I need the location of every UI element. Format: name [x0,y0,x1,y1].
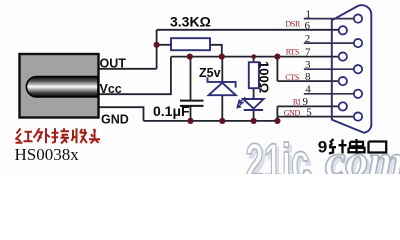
label red chinese 红外接收头 (drawn strokes) [16,128,101,143]
pin 1 stub [304,18,354,20]
node CTS branch junction [274,54,280,60]
接 [52,128,70,143]
svg-text:5: 5 [306,106,312,118]
wire capacitor bottom to GND rail [190,106,192,121]
pin 2 circle [354,39,362,47]
capacitor 0.1uF plates [180,101,204,106]
pin 1 circle [354,14,362,22]
resistor R1 3.3K body [171,38,210,50]
svg-text:Z5v: Z5v [199,66,221,80]
IR receiver box HS0038 [20,54,99,118]
wire 100ohm top [253,57,255,63]
pin 4 circle [354,90,362,98]
svg-text:RTS: RTS [286,47,299,56]
svg-text:.: . [303,136,315,174]
pin 7 circle [339,52,347,60]
svg-text:4: 4 [305,84,311,96]
pin 9 circle [339,102,347,110]
wire 100ohm bottom to LED [253,88,255,99]
node zener top junction [219,54,225,60]
口 [369,142,387,153]
pin 3 stub [304,68,354,70]
针 [329,139,347,154]
wire capacitor top [190,57,192,101]
svg-text:6: 6 [305,20,311,32]
svg-text:HS0038x: HS0038x [15,145,80,164]
svg-text:9: 9 [318,137,327,156]
DB9 connector body [332,5,372,133]
外 [34,128,50,143]
svg-text:3: 3 [305,59,311,71]
pin numbers [303,8,313,118]
wire zener bottom to GND rail [221,95,223,121]
svg-text:RI: RI [293,97,301,106]
wire Vcc pin to vertical up to RTS rail [98,57,171,95]
wire to DB9 pin 8 (CTS) [277,80,338,82]
svg-text:CTS: CTS [285,73,299,82]
svg-text:2: 2 [305,33,311,45]
pin 5 circle [354,112,362,120]
svg-text:GND: GND [284,109,301,118]
wire OUT pin to vertical [98,68,157,70]
wire RTS rail to DB9 pin 7 [171,56,339,58]
wire vertical GND rail up to pin5/pin9 [276,106,278,121]
svg-text:100Ω: 100Ω [257,61,272,93]
wire GND pin with jog down to ground rail [98,107,144,121]
LED arrows [237,97,245,108]
svg-text:21ic: 21ic [246,134,310,174]
resistor R2 100ohm body [249,62,259,88]
junction dots [154,42,281,124]
wire LED cathode to GND rail [253,110,255,121]
node R2 top junction [252,54,257,59]
svg-text:1: 1 [306,8,312,20]
wire vertical OUT up to DSR rail [156,30,158,69]
watermark 21ic.com [246,134,400,195]
wire zener top [221,57,223,82]
pin 6 circle [339,26,347,34]
svg-text:7: 7 [305,46,311,58]
pin 2 stub [304,42,354,44]
wire R1 right lead down to RTS rail [210,45,222,57]
label 9针串口 [318,137,386,156]
IR receiver lens barrel [26,77,98,98]
pin 4 stub [304,93,354,95]
wire R1 left lead [157,44,171,46]
svg-text:8: 8 [305,71,311,83]
node cap bottom junction [187,118,193,124]
zener diode Z5v [208,77,236,95]
红 [16,129,33,143]
收 [72,128,88,143]
svg-text:3.3KΩ: 3.3KΩ [170,13,211,29]
svg-text:GND: GND [101,112,129,126]
wire to DB9 pin 5 (GND) [277,116,353,118]
LED D2 [243,99,263,110]
node GND rail corner junction [274,118,280,124]
svg-text:DSR: DSR [285,19,301,28]
svg-text:0.1μF: 0.1μF [153,103,190,119]
串 [349,139,365,154]
port signal labels [284,19,301,117]
头 [89,129,100,144]
wire top rail to DB9 pin 6 (DSR net) [157,29,339,31]
svg-text:Vcc: Vcc [100,82,122,96]
svg-text:OUT: OUT [100,56,127,70]
pin 3 circle [354,65,362,73]
wire vertical RTS rail down to pin 8 [276,57,278,82]
DB9 pin circles [339,14,363,120]
wire to DB9 pin 9 (RI) [277,105,338,107]
node LED bottom junction [251,118,257,124]
node cap top junction [187,54,193,60]
node zener bottom junction [219,118,225,124]
node R1 left junction [154,42,160,48]
wire ground rail [144,120,278,122]
pin 8 circle [339,77,347,85]
